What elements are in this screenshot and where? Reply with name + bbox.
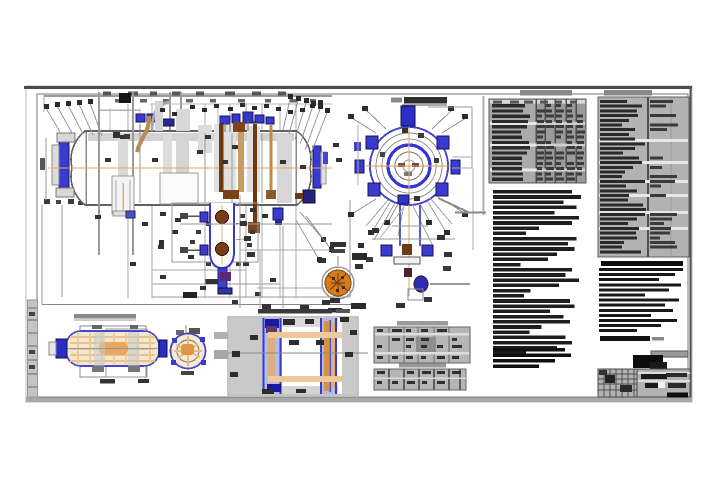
top view saddle strip left bbox=[94, 332, 105, 366]
pipe tee blob bbox=[459, 0, 461, 1]
pot bottom pipe blue bbox=[218, 268, 227, 289]
small table 1 grid bbox=[375, 327, 469, 363]
internal vertical line b bbox=[204, 133, 206, 203]
lower assembly specks bbox=[366, 228, 452, 308]
leader fan top-left with balloons bbox=[44, 99, 102, 136]
internal vertical line d bbox=[261, 133, 263, 203]
nozzle stem gray band b bbox=[247, 126, 260, 192]
gray stem band 2 bbox=[176, 109, 190, 131]
end view top nozzle flange bbox=[401, 106, 415, 126]
dimension label below main view bbox=[183, 292, 197, 298]
sheet bottom shadow edge bbox=[26, 397, 692, 402]
saddle view right gray band bbox=[342, 318, 357, 394]
lower assembly plate bbox=[394, 257, 420, 264]
gasket detail label bbox=[330, 242, 346, 253]
right table body bbox=[598, 97, 689, 257]
title block doc number ext bbox=[650, 362, 667, 369]
bottom-right nozzle brown bit bbox=[295, 193, 303, 199]
lower assembly bottom box bbox=[408, 289, 423, 300]
end view outer circle (blue) bbox=[370, 127, 448, 205]
small table 2 text noise bbox=[377, 371, 461, 384]
saddle view blue band left bottom cap bbox=[267, 384, 281, 392]
lower assembly brown hub bbox=[402, 244, 412, 255]
misc dimension specks bbox=[262, 264, 363, 310]
elbow pipe to N2 (gray) bbox=[152, 102, 170, 131]
end view center hub circle bbox=[403, 160, 415, 172]
end view lower fan balloons bbox=[358, 230, 450, 248]
end view vertical centerline bbox=[408, 108, 410, 296]
standpipe bottom blue tick bbox=[126, 211, 135, 218]
technical requirements text block bbox=[493, 190, 581, 368]
end view label prefix bbox=[391, 98, 402, 103]
top view orange center blob bbox=[99, 342, 128, 355]
end view dim lines right bbox=[428, 107, 472, 168]
section line horizontal bbox=[455, 212, 486, 214]
below-flange dim specks bbox=[44, 199, 164, 247]
nozzle table text noise bbox=[492, 101, 585, 181]
end view flange SE bbox=[436, 183, 448, 196]
sheet top edge bbox=[24, 86, 692, 89]
saddle view blue band left edges bbox=[264, 318, 281, 394]
nozzle N7 flange bbox=[266, 117, 274, 124]
saddle view blue band left bbox=[262, 318, 282, 394]
right end flange (blue) bbox=[313, 146, 321, 188]
main view enclosing dimension verticals bbox=[62, 200, 350, 298]
internal vertical line a bbox=[139, 133, 141, 203]
saddle view tan crossbar bottom bbox=[268, 376, 342, 382]
left flange outer cap bbox=[52, 145, 59, 185]
end view center specks bbox=[398, 163, 419, 176]
standpipe cylinder bbox=[112, 176, 134, 214]
top view dim frame outer bbox=[80, 326, 146, 377]
pot feed brown pipe bbox=[219, 124, 224, 192]
lower assembly cross dim line bbox=[372, 238, 455, 240]
small table 2 grid bbox=[374, 369, 466, 390]
end view radial leaders with balloons bbox=[348, 106, 468, 244]
left flange bottom plate bbox=[56, 188, 74, 197]
pot left stubs bbox=[180, 213, 200, 253]
right table column divider 2 bbox=[670, 97, 672, 257]
leader fan bottom-right of vessel bbox=[296, 212, 334, 262]
title block revision grid bbox=[598, 369, 637, 397]
right block trailing line bbox=[600, 336, 664, 341]
nozzle N1 stem bbox=[140, 124, 148, 133]
scattered position number specks bbox=[95, 100, 342, 304]
stamp strip cell ticks bbox=[28, 308, 37, 387]
end view bold blue circle bbox=[388, 145, 430, 187]
nozzle table title bbox=[520, 90, 572, 96]
top-left gray dim streak bbox=[98, 109, 140, 111]
circular view outer circle bbox=[171, 334, 206, 369]
saddle view blue band left top cap bbox=[265, 319, 279, 328]
section line left of end view bbox=[357, 125, 359, 185]
lower assembly flange right bbox=[422, 245, 433, 256]
internal brown pipe 1 bbox=[238, 126, 244, 192]
small table 2 title bbox=[399, 364, 446, 368]
end view bottom small flange bbox=[398, 195, 409, 204]
saddle view dark specks bbox=[230, 317, 357, 394]
standpipe center tan line bbox=[122, 183, 124, 210]
right table title bbox=[604, 90, 652, 96]
end view horizontal centerline bbox=[366, 165, 452, 167]
gray stem band 1 bbox=[155, 101, 163, 131]
saddle view blue band right bbox=[320, 318, 337, 394]
vessel top edge specks bbox=[113, 132, 130, 139]
end view ring specks bbox=[380, 128, 439, 201]
right table light separators bbox=[599, 139, 688, 230]
nozzle N3 flange bbox=[220, 116, 230, 124]
leader fan top-right with balloons bbox=[283, 94, 330, 156]
nozzle N6 flange bbox=[255, 115, 264, 123]
circular view top marks bbox=[176, 325, 200, 335]
vessel shell top shading band bbox=[88, 133, 294, 141]
pot nozzle circle upper bbox=[216, 211, 229, 224]
nozzle stem gray band a bbox=[214, 124, 236, 192]
nozzle N2 side flange bbox=[162, 119, 174, 126]
right table text noise bbox=[600, 100, 678, 253]
saddle view title bbox=[258, 309, 350, 314]
lower assembly blue body bbox=[414, 276, 428, 292]
internal dark pipe bbox=[253, 124, 257, 230]
below-vessel dim lattice bbox=[180, 195, 332, 308]
nozzle table light separators bbox=[490, 122, 585, 172]
bottom-left view title bbox=[74, 314, 136, 320]
nozzle table right section tint bbox=[536, 104, 586, 183]
circular view bottom speck bbox=[181, 371, 194, 375]
nozzle table header band bbox=[490, 100, 585, 104]
small table 1 title bbox=[397, 321, 448, 326]
saddle view top gray strip bbox=[262, 318, 338, 327]
right lower text block bbox=[599, 268, 683, 332]
circular view inner circle bbox=[177, 340, 199, 362]
pot shell outline bbox=[210, 203, 234, 268]
small table 1 body bbox=[374, 327, 470, 363]
top dimension line over vessel bbox=[44, 94, 332, 112]
top view bottom specks bbox=[100, 379, 149, 384]
internal tan pipe bbox=[270, 125, 273, 196]
gasket detail outer ring bbox=[322, 267, 354, 299]
right table column divider bbox=[647, 97, 649, 257]
nozzle table column lines bbox=[536, 99, 576, 183]
dimension label mid bbox=[205, 279, 218, 284]
gasket detail hatch bbox=[328, 273, 348, 293]
pot center tan line bbox=[221, 205, 223, 265]
section line diagonal bbox=[438, 198, 468, 212]
end view flange E bbox=[451, 160, 460, 174]
lower assembly side line bbox=[430, 283, 470, 285]
mid-vessel bottom nozzle bbox=[273, 208, 283, 225]
end view label bar bbox=[404, 97, 447, 104]
nozzle stems group bbox=[225, 121, 254, 132]
nozzle N4 flange bbox=[232, 114, 240, 123]
end view label underline bbox=[402, 104, 447, 106]
end view flange W bbox=[355, 160, 364, 173]
top view saddle marks bbox=[92, 325, 140, 372]
pot left flange lower bbox=[200, 245, 208, 255]
nozzle stem gray band c bbox=[198, 125, 212, 153]
end view circle r33 bbox=[376, 133, 442, 199]
lower assembly flange left bbox=[381, 245, 392, 256]
top view vessel body bbox=[66, 331, 159, 366]
title block right cells bbox=[637, 369, 690, 397]
right flange outer bits bbox=[321, 152, 326, 184]
overlay vertical extension x99 bbox=[98, 92, 100, 255]
nozzle N1 flange bolt b bbox=[147, 114, 156, 122]
title block upper gray bar bbox=[651, 351, 688, 357]
pot bottom flange bbox=[218, 288, 232, 294]
title block doc number black blob bbox=[633, 355, 663, 368]
end view flange SW bbox=[368, 183, 380, 196]
sheet right edge bbox=[690, 86, 692, 402]
end view lower stems bbox=[372, 202, 446, 246]
pot dimension box small bbox=[172, 203, 258, 262]
left end flange (blue) bbox=[59, 141, 69, 188]
small table 2 body bbox=[374, 369, 466, 390]
vessel shell body bbox=[71, 131, 311, 205]
bottom-right navy nozzle bbox=[303, 190, 315, 203]
left flange top plate bbox=[57, 133, 75, 142]
pot left flange upper bbox=[200, 212, 208, 222]
gasket detail orange disc bbox=[325, 270, 351, 296]
gasket detail side specks bbox=[318, 253, 367, 313]
saddle view left gray band bbox=[229, 318, 262, 394]
nozzle N1 flange bolt a bbox=[136, 114, 145, 122]
vessel head weld line right bbox=[295, 132, 297, 204]
saddle view left stub upper bbox=[214, 332, 228, 359]
vessel head weld line left bbox=[85, 132, 87, 204]
end view flange NW bbox=[366, 136, 378, 149]
standpipe inner lines bbox=[116, 180, 130, 211]
baffle white box bbox=[160, 173, 198, 204]
internal vertical line c bbox=[231, 133, 233, 203]
end view flange NE bbox=[437, 136, 449, 149]
small table 1 text noise bbox=[377, 329, 462, 359]
pot feed pipe elbow bbox=[223, 190, 239, 199]
top view dim frame inner bbox=[106, 329, 147, 377]
pot right leader specks bbox=[234, 221, 255, 257]
left margin stamp strip bbox=[28, 300, 38, 397]
saddle view blue band right orange core bbox=[324, 321, 335, 391]
title block main table bbox=[598, 369, 690, 397]
tube bundle gray strip 4 bbox=[277, 134, 292, 203]
pot nozzle circle lower bbox=[216, 243, 229, 256]
top view right cap bbox=[159, 340, 167, 357]
tube bundle gray strip 1 bbox=[118, 134, 128, 203]
saddle view outer box bbox=[228, 317, 358, 395]
vessel centerline (orange) bbox=[48, 167, 332, 169]
tube bundle gray strip 3 bbox=[176, 134, 189, 203]
top view left outer bit bbox=[49, 342, 56, 355]
saddle view centerline bbox=[214, 352, 368, 354]
standpipe bottom cap bbox=[113, 211, 133, 216]
circular view flange dots bbox=[171, 337, 206, 365]
top view saddle strip right bbox=[128, 332, 139, 366]
sheet background bbox=[26, 86, 692, 402]
dimension text specks along top line bbox=[103, 92, 316, 103]
secondary top dimension line bbox=[150, 103, 332, 105]
tube bundle gray strip 2 bbox=[163, 134, 172, 203]
title block bottom-right black blob bbox=[667, 393, 688, 398]
left vertical dimension line bbox=[40, 138, 46, 200]
end view circle r27 bbox=[382, 139, 436, 193]
saddle view bottom gray strip bbox=[262, 386, 338, 394]
overlay vertical extension x133 bbox=[132, 92, 134, 255]
right text block header bbox=[601, 261, 683, 266]
pipe elbow blob 2 bbox=[248, 222, 260, 233]
long vertical dimension extension lines bbox=[110, 92, 296, 298]
saddle view bottom dim specks bbox=[0, 0, 1, 1]
top view tan hatch bbox=[70, 333, 155, 364]
top view left cap bbox=[56, 339, 67, 358]
top-left black label bbox=[119, 93, 131, 103]
top view centerline bbox=[58, 348, 166, 350]
circular view orange blob bbox=[181, 344, 194, 355]
right flange small blue bit bbox=[323, 152, 328, 164]
bent pipe below N1 (tan) bbox=[137, 116, 149, 152]
pot bottom purple valve bbox=[220, 272, 231, 281]
main view bottom dimension lines bbox=[42, 205, 352, 305]
saddle view blue band right edges bbox=[321, 318, 336, 394]
gasket detail leader bbox=[337, 256, 339, 266]
saddle view blue band left tan core bbox=[268, 330, 275, 382]
saddle view tan crossbar top bbox=[268, 332, 342, 338]
inner drawing frame bbox=[37, 94, 688, 397]
pipe elbow blob 1 bbox=[233, 122, 245, 132]
end view inner circle bbox=[395, 152, 423, 180]
end view W leader blue bit bbox=[354, 142, 361, 151]
lower assembly maroon blob bbox=[404, 268, 412, 277]
nozzle N5 flange bbox=[243, 112, 253, 123]
nozzle table body bbox=[489, 99, 586, 183]
end view outer dim vertical bbox=[473, 96, 484, 250]
pipe elbow blob 3 bbox=[266, 190, 276, 199]
circular view tan hatch bbox=[174, 336, 202, 366]
saddle view blue band left purple blob bbox=[266, 326, 277, 333]
